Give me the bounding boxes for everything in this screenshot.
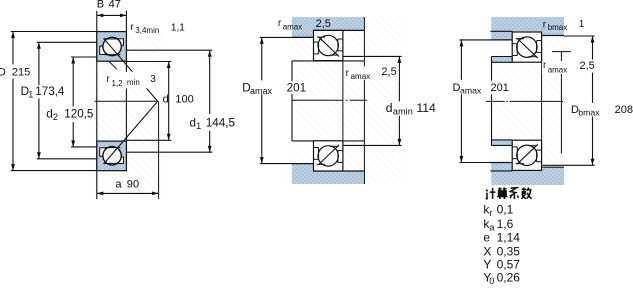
housing shoulder top-left (middle figure) — [292, 30, 314, 37]
housing band bottom (right figure) — [491, 171, 564, 185]
housing shoulder top-left (right figure) — [491, 31, 512, 40]
centerline middle figure — [292, 99, 343, 101]
label background D1 173,4 — [20, 86, 66, 99]
wire D extension top — [11, 31, 97, 33]
svg-text:e1,14: e1,14 — [483, 231, 520, 245]
svg-text:Y0,57: Y0,57 — [483, 257, 520, 271]
bearing top section (middle figure) — [314, 30, 343, 60]
housing band top (right figure) — [491, 17, 564, 31]
label background r1,2 min 3 — [104, 72, 159, 89]
label background D 215 — [0, 66, 30, 78]
label background d2 120,5 — [45, 107, 92, 122]
wire housing shoulder face top (Da) — [292, 36, 314, 38]
faint hatch background middle figure — [290, 16, 402, 184]
dimension Dbmax 208 — [592, 36, 594, 60]
wire housing shoulder face top (Da, right) — [490, 39, 512, 41]
wire housing bore line top-left (right) — [490, 30, 512, 32]
wire inner-ring groove edge (top section) — [105, 54, 120, 56]
wire D1 extension top — [37, 41, 97, 43]
svg-text:d100: d100 — [163, 93, 194, 105]
wire shaft surface bottom — [292, 140, 364, 142]
dimension Damax 201 (right figure) — [460, 40, 462, 80]
label background ramax (right figure) — [542, 61, 574, 73]
wire housing bore line bottom — [314, 170, 365, 172]
wire apex extension line (a dimension) — [158, 101, 160, 199]
wire shaft right end / band edge lower — [363, 80, 365, 185]
wire housing shoulder face top (Db, right) — [542, 35, 564, 37]
wire inner-ring groove edge (bottom section) — [105, 147, 120, 149]
ball (bottom section) — [103, 147, 121, 165]
dimension d 100 — [168, 62, 170, 141]
recess notch right (top section) — [118, 39, 123, 46]
wire shaft right end / band edge upper — [363, 17, 365, 66]
wire bearing right face line between sections (right) — [541, 62, 543, 140]
wire outer-ring groove edge (bottom section) — [104, 162, 119, 164]
housing shoulder top-right (right figure) — [542, 31, 564, 35]
wire damin extension bottom — [343, 144, 402, 146]
ball (top section) — [103, 37, 121, 55]
wire shaft end face (lower part) — [291, 93, 293, 141]
wire Dbmax extension bottom — [543, 164, 595, 166]
wire d1 extension top (shoulder line) — [126, 49, 212, 51]
recess notch right (bottom section) — [118, 157, 123, 164]
wire d2 extension bottom — [71, 146, 97, 148]
wire outer-ring groove edge (top section) — [104, 38, 119, 40]
bearing outer+inner ring bottom section (blue hatched) — [97, 141, 127, 171]
housing shoulder bottom-left (right figure) — [491, 163, 512, 171]
wire Dbmax extension top — [564, 35, 595, 37]
svg-text:2,5: 2,5 — [580, 60, 595, 72]
shaft abutment sleeve top (right figure) — [492, 57, 513, 63]
dimension D1 173,4 — [38, 42, 40, 85]
svg-text:Y00,26: Y00,26 — [483, 271, 520, 286]
svg-text:2,5: 2,5 — [381, 66, 396, 78]
wire d1 extension bottom (shoulder line) — [126, 151, 212, 153]
svg-text:X0,35: X0,35 — [483, 244, 520, 258]
bearing bottom section (right figure) — [512, 140, 541, 170]
housing shoulder bottom-right (right figure) — [542, 167, 564, 171]
label background Damax 201 (right) — [452, 81, 508, 94]
wire D extension bottom — [11, 170, 97, 172]
svg-text:D215: D215 — [0, 67, 30, 79]
wire housing shoulder face bottom (Db, right) — [542, 166, 564, 168]
recess notch left (bottom section) — [100, 148, 106, 156]
wire Damax extension top (right) — [459, 39, 490, 41]
shaft abutment sleeve bottom (right figure) — [492, 140, 513, 146]
wire d extension top (bore line) — [126, 61, 171, 63]
wire Damax extension bottom (right) — [459, 162, 491, 164]
wire contact-angle line bottom section to apex — [104, 101, 158, 164]
svg-text:D1173,4: D1173,4 — [21, 85, 65, 100]
faint hatch background left figure — [92, 32, 164, 199]
bearing outer+inner ring top section (blue hatched) — [97, 32, 127, 62]
wire contact-angle line top section to apex — [104, 38, 158, 101]
dimension Damax 201 (middle figure) — [261, 37, 263, 80]
label background Dbmax 208 — [570, 103, 602, 116]
table heading 计算系数 (calculation factors), drawn as strokes — [486, 188, 532, 200]
bearing bottom section (middle figure) — [314, 141, 343, 171]
wire shaft end face lower (right figure) — [491, 92, 493, 145]
dimension a 90 — [97, 192, 159, 194]
dimension damin 114 — [398, 56, 400, 101]
housing shoulder bottom-left (middle figure) — [292, 164, 314, 171]
wire d2 extension top — [71, 56, 97, 58]
wire housing shoulder face bottom (Da) — [292, 163, 314, 165]
housing band bottom (middle figure) — [292, 171, 365, 184]
centerline right figure — [486, 100, 505, 102]
dimension D 215 — [12, 32, 14, 65]
recess notch left (top section) — [100, 46, 106, 54]
label background Damax 201 (middle) — [241, 82, 306, 95]
svg-text:a90: a90 — [115, 179, 139, 191]
label background damin 114 — [384, 102, 437, 116]
wire axis line left figure — [95, 100, 158, 102]
wire d extension bottom (bore line) — [126, 139, 171, 141]
housing band top (middle figure) — [292, 17, 365, 30]
wire shaft surface top — [292, 60, 364, 62]
wire bearing right face line between sections (middle) — [342, 61, 344, 141]
wire right face extension line of bearing (B extension) — [125, 11, 127, 171]
svg-text:B47: B47 — [97, 0, 121, 11]
wire housing bore line bottom-left (right) — [490, 170, 512, 172]
wire shaft end face (upper part) — [291, 61, 293, 81]
wire left face extension line of bearing (B/a extension) — [96, 11, 98, 199]
dimension d2 120,5 — [72, 57, 74, 107]
faint hatch background right figure — [488, 16, 566, 186]
wire housing shoulder face bottom (Da, right) — [490, 162, 512, 164]
wire housing bore line top — [314, 29, 365, 31]
wire damin extension top — [343, 55, 402, 57]
label background d1 144,5 — [188, 116, 237, 129]
wire Damax extension bottom — [260, 163, 292, 165]
leader ramax (right figure) — [552, 51, 571, 53]
wire Damax extension top — [260, 36, 292, 38]
svg-text:kr0,1: kr0,1 — [483, 203, 513, 218]
wire shaft end face upper (right figure) — [491, 57, 493, 81]
label background ramax (mid, middle figure) — [345, 67, 375, 80]
wire leader stub r1,2 at inner-ring bore corner — [109, 61, 117, 69]
bearing top section (right figure) — [512, 32, 541, 62]
wire D1 extension bottom — [37, 158, 97, 160]
dimension B 47 — [97, 14, 127, 16]
